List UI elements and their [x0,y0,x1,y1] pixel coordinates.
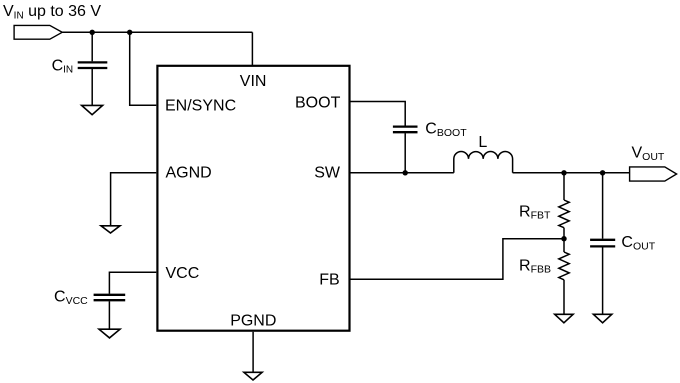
svg-text:VIN: VIN [240,73,267,90]
svg-text:VCC: VCC [166,265,200,282]
svg-text:BOOT: BOOT [295,95,341,112]
svg-text:SW: SW [314,164,341,181]
svg-text:PGND: PGND [230,313,276,330]
svg-text:AGND: AGND [166,164,212,181]
svg-text:L: L [478,134,487,151]
svg-text:FB: FB [319,272,339,289]
svg-text:EN/SYNC: EN/SYNC [165,97,236,114]
